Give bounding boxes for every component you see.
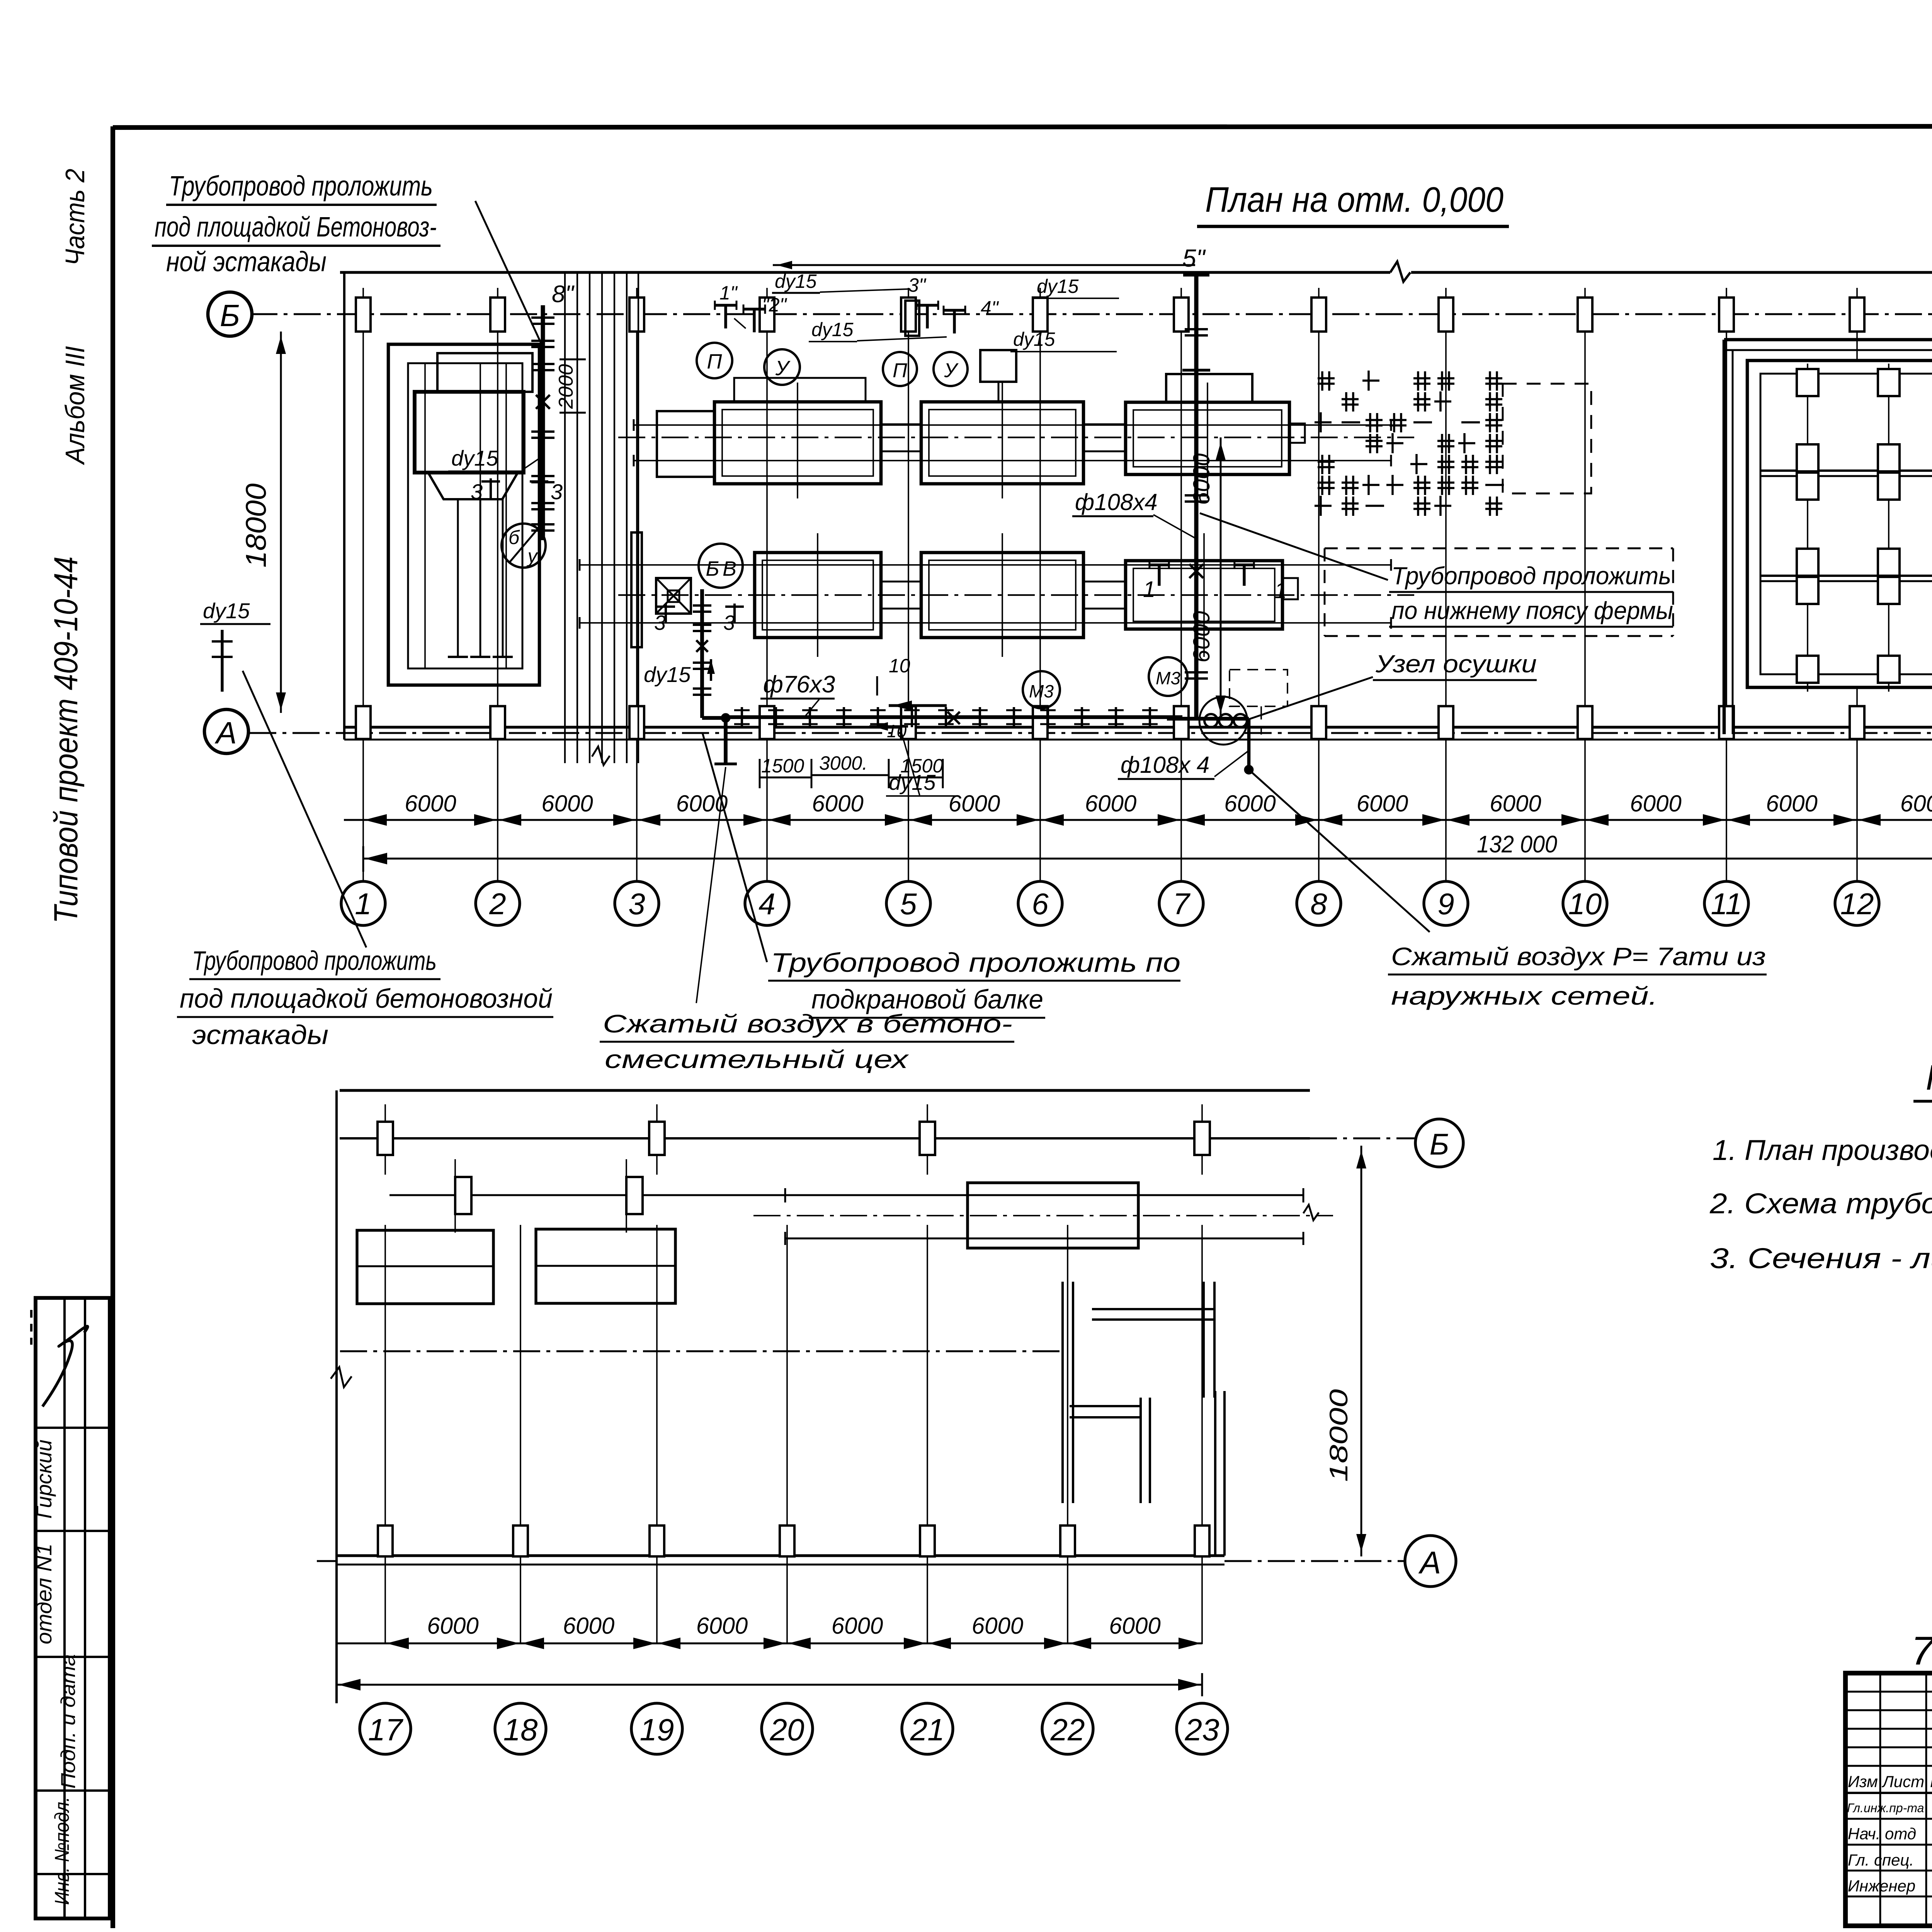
svg-text:М3: М3 xyxy=(1156,668,1180,688)
svg-text:Трубопровод проложить по: Трубопровод проложить по xyxy=(771,947,1180,978)
svg-text:dy15: dy15 xyxy=(1013,328,1055,350)
svg-text:Инженер: Инженер xyxy=(1848,1877,1915,1895)
svg-text:Сжатый воздух Р= 7ати из: Сжатый воздух Р= 7ати из xyxy=(1391,942,1766,971)
svg-text:6000: 6000 xyxy=(427,1613,478,1639)
svg-text:5: 5 xyxy=(900,887,917,921)
svg-text:2: 2 xyxy=(489,887,506,921)
svg-text:dy15: dy15 xyxy=(775,270,817,292)
svg-text:3: 3 xyxy=(628,887,645,921)
svg-text:8": 8" xyxy=(552,281,575,308)
svg-text:6000: 6000 xyxy=(1085,791,1136,816)
svg-text:Подп. и дата: Подп. и дата xyxy=(57,1654,80,1789)
svg-text:П: П xyxy=(707,350,722,373)
svg-text:1. План производственного: 1. План производственного корпуса на отм… xyxy=(1713,1134,1932,1166)
svg-text:1500: 1500 xyxy=(761,755,804,777)
svg-text:наружных сетей.: наружных сетей. xyxy=(1391,981,1658,1010)
svg-text:12: 12 xyxy=(1840,887,1874,921)
svg-text:Изм: Изм xyxy=(1848,1772,1878,1791)
svg-text:1: 1 xyxy=(355,887,371,921)
svg-text:18000: 18000 xyxy=(240,483,272,568)
svg-text:Лист: Лист xyxy=(1881,1772,1924,1791)
svg-text:под площадкой бетоновозной: под площадкой бетоновозной xyxy=(180,983,553,1014)
svg-text:3000.: 3000. xyxy=(819,752,867,774)
svg-text:Гл.инж.пр-та: Гл.инж.пр-та xyxy=(1847,1801,1924,1815)
svg-text:Инв. №подл.: Инв. №подл. xyxy=(51,1797,73,1905)
svg-text:6000: 6000 xyxy=(1224,791,1276,816)
svg-text:10: 10 xyxy=(889,655,910,677)
svg-text:23: 23 xyxy=(1185,1713,1219,1747)
svg-text:ф108х4: ф108х4 xyxy=(1075,489,1158,515)
svg-text:ной эстакады: ной эстакады xyxy=(166,247,327,277)
svg-text:Б: Б xyxy=(706,557,719,580)
svg-text:А: А xyxy=(1418,1545,1441,1580)
svg-text:6000: 6000 xyxy=(1189,611,1214,662)
svg-text:132 000: 132 000 xyxy=(1477,831,1557,858)
svg-text:Гл. спец.: Гл. спец. xyxy=(1848,1851,1914,1869)
svg-text:у: у xyxy=(527,545,539,567)
svg-text:А: А xyxy=(214,716,236,750)
svg-text:Трубопровод проложить: Трубопровод проложить xyxy=(1391,562,1671,590)
svg-text:dy15: dy15 xyxy=(811,319,854,340)
svg-text:4": 4" xyxy=(981,297,999,319)
svg-text:6000: 6000 xyxy=(1109,1613,1160,1639)
svg-text:9: 9 xyxy=(1437,887,1454,921)
svg-text:Нач. отд: Нач. отд xyxy=(1848,1825,1916,1843)
svg-text:6: 6 xyxy=(1032,887,1049,921)
svg-text:19: 19 xyxy=(640,1713,674,1747)
svg-text:1": 1" xyxy=(719,282,738,304)
svg-text:dy15: dy15 xyxy=(644,662,691,687)
svg-text:6000: 6000 xyxy=(1630,791,1681,816)
svg-text:Б: Б xyxy=(1430,1127,1449,1161)
svg-text:1: 1 xyxy=(1143,577,1155,602)
svg-text:Трубопровод проложить: Трубопровод проложить xyxy=(169,171,433,202)
svg-text:Часть 2: Часть 2 xyxy=(60,169,90,266)
svg-text:1: 1 xyxy=(1274,578,1287,603)
svg-text:У: У xyxy=(775,357,791,380)
svg-text:Типовой проект 409-10-44: Типовой проект 409-10-44 xyxy=(48,556,85,923)
svg-text:6000: 6000 xyxy=(949,791,1000,816)
svg-text:6000: 6000 xyxy=(1766,791,1817,816)
svg-text:3: 3 xyxy=(471,480,483,504)
svg-text:17: 17 xyxy=(368,1713,403,1747)
svg-text:18: 18 xyxy=(503,1713,538,1747)
svg-text:dy15: dy15 xyxy=(451,446,498,470)
svg-text:5": 5" xyxy=(1182,244,1206,272)
svg-text:6000: 6000 xyxy=(1490,791,1541,816)
svg-text:б: б xyxy=(509,527,520,548)
svg-text:dy15: dy15 xyxy=(1037,276,1079,297)
svg-text:3: 3 xyxy=(551,480,563,504)
svg-text:смесительный цех: смесительный цех xyxy=(605,1045,909,1073)
svg-text:21: 21 xyxy=(910,1713,945,1747)
svg-text:6000: 6000 xyxy=(1900,791,1932,816)
svg-text:Трубопровод проложить: Трубопровод проложить xyxy=(192,946,437,976)
svg-text:3": 3" xyxy=(908,274,927,296)
svg-text:6000: 6000 xyxy=(972,1613,1023,1639)
svg-text:3. Сечения - лист 9: 3. Сечения - лист 9 xyxy=(1710,1242,1932,1274)
svg-text:11: 11 xyxy=(1711,887,1742,921)
svg-text:6000: 6000 xyxy=(563,1613,614,1639)
svg-text:8: 8 xyxy=(1310,887,1327,921)
svg-text:Б: Б xyxy=(220,298,240,333)
svg-text:2. Схема трубопроводов и ус: 2. Схема трубопроводов и условные обозна… xyxy=(1709,1187,1932,1219)
svg-text:22: 22 xyxy=(1050,1713,1085,1747)
svg-text:План на отм. 0,000: План на отм. 0,000 xyxy=(1205,180,1503,219)
svg-text:1500: 1500 xyxy=(900,755,943,777)
svg-text:по нижнему поясу фермы: по нижнему поясу фермы xyxy=(1391,597,1673,624)
svg-text:2000: 2000 xyxy=(555,364,577,409)
svg-text:10: 10 xyxy=(1568,887,1602,921)
svg-text:6000: 6000 xyxy=(541,791,593,816)
svg-text:отдел N1: отдел N1 xyxy=(32,1544,56,1645)
svg-text:6000: 6000 xyxy=(696,1613,748,1639)
svg-text:dy15: dy15 xyxy=(203,599,250,623)
svg-text:6000: 6000 xyxy=(1189,453,1214,505)
svg-text:20: 20 xyxy=(770,1713,804,1747)
svg-text:6000: 6000 xyxy=(832,1613,883,1639)
svg-text:В: В xyxy=(723,557,736,580)
svg-text:N докум.: N докум. xyxy=(1930,1772,1932,1791)
svg-text:Гирский: Гирский xyxy=(32,1440,56,1519)
svg-text:"2": "2" xyxy=(762,294,787,316)
svg-text:под площадкой Бетоновоз-: под площадкой Бетоновоз- xyxy=(155,212,437,243)
svg-text:эстакады: эстакады xyxy=(192,1020,328,1050)
svg-text:М3: М3 xyxy=(1029,681,1054,701)
svg-text:Альбом III: Альбом III xyxy=(60,346,90,466)
svg-text:ф76х3: ф76х3 xyxy=(763,671,835,698)
svg-text:6000: 6000 xyxy=(405,791,456,816)
svg-text:18000: 18000 xyxy=(1324,1389,1353,1482)
svg-text:ф108х 4: ф108х 4 xyxy=(1121,752,1209,778)
svg-text:7: 7 xyxy=(1173,887,1190,921)
svg-text:7922/7: 7922/7 xyxy=(1911,1629,1932,1673)
svg-text:6000: 6000 xyxy=(1357,791,1408,816)
svg-text:6000: 6000 xyxy=(812,791,863,816)
svg-text:Примечания: Примечания xyxy=(1926,1058,1932,1097)
svg-text:П: П xyxy=(893,359,907,382)
svg-text:Сжатый воздух в бетоно-: Сжатый воздух в бетоно- xyxy=(603,1009,1012,1038)
svg-text:У: У xyxy=(944,359,959,382)
svg-text:4: 4 xyxy=(759,887,775,921)
svg-text:Узел осушки: Узел осушки xyxy=(1375,650,1537,678)
